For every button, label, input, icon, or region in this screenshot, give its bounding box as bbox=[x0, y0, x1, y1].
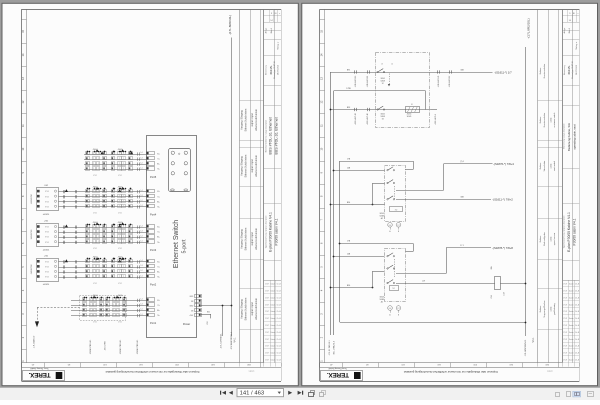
svg-text:36115-: 36115- bbox=[567, 65, 571, 74]
svg-text:17.07: 17.07 bbox=[563, 318, 567, 320]
svg-text:5-2: 5-2 bbox=[140, 270, 142, 272]
svg-text:L19: L19 bbox=[422, 280, 425, 282]
svg-text:4T02: 4T02 bbox=[93, 175, 97, 177]
svg-text:ethernet switch intern: ethernet switch intern bbox=[255, 227, 258, 250]
svg-text:+S11-X4075:9: +S11-X4075:9 bbox=[435, 114, 437, 125]
svg-text:Kabine: Kabine bbox=[540, 116, 542, 123]
svg-text:Port5: Port5 bbox=[150, 175, 157, 179]
svg-text:4T02: 4T02 bbox=[118, 175, 122, 177]
svg-text:8T03: 8T03 bbox=[45, 266, 49, 268]
svg-text:ethernet switch intern: ethernet switch intern bbox=[255, 154, 258, 177]
svg-text:Kabine: Kabine bbox=[540, 305, 542, 312]
svg-text:-W1..178A.74.4: -W1..178A.74.4 bbox=[332, 340, 335, 355]
svg-text:Port3: Port3 bbox=[150, 248, 157, 252]
svg-text:Ch.-B: Ch.-B bbox=[277, 353, 281, 355]
svg-text:178B: 178B bbox=[346, 88, 351, 90]
svg-text:BUS #TOL-10, Ethernet: BUS #TOL-10, Ethernet bbox=[274, 117, 278, 154]
svg-text:8T03: 8T03 bbox=[45, 242, 49, 244]
svg-text:8T03: 8T03 bbox=[45, 206, 49, 208]
svg-text:v: v bbox=[279, 13, 280, 15]
svg-text:+S11-X4075:11: +S11-X4075:11 bbox=[367, 76, 369, 88]
svg-text:Ch.-B: Ch.-B bbox=[575, 304, 579, 306]
svg-text:-A1624: -A1624 bbox=[43, 213, 50, 216]
svg-text:Benennung: Benennung bbox=[564, 65, 566, 75]
svg-text:80+: 80+ bbox=[157, 272, 160, 274]
svg-text:Kabine: Kabine bbox=[540, 162, 542, 169]
svg-text:70-: 70- bbox=[157, 196, 160, 198]
svg-text:80-: 80- bbox=[157, 154, 160, 156]
svg-text:S0345: S0345 bbox=[407, 116, 412, 118]
svg-text:-17L.W6/7B0/14.1: -17L.W6/7B0/14.1 bbox=[525, 339, 527, 357]
svg-text:V4.1: V4.1 bbox=[532, 337, 535, 343]
svg-text:+S11-X4075:19: +S11-X4075:19 bbox=[355, 76, 357, 88]
svg-text:S1: S1 bbox=[411, 104, 413, 106]
svg-text:Ch.-B: Ch.-B bbox=[575, 318, 579, 320]
svg-text:5-2: 5-2 bbox=[140, 235, 142, 237]
svg-text:A2: A2 bbox=[381, 217, 383, 220]
svg-text:5-3: 5-3 bbox=[140, 230, 142, 232]
svg-text:Ch.-B: Ch.-B bbox=[575, 311, 579, 313]
svg-text:-W605: -W605 bbox=[118, 149, 123, 151]
svg-text:Kopieren oder Weitergabe nur m: Kopieren oder Weitergabe nur mit unserer… bbox=[105, 370, 199, 374]
svg-text:80-: 80- bbox=[157, 261, 160, 263]
svg-text:W62: W62 bbox=[207, 321, 209, 324]
svg-text:-R46: -R46 bbox=[491, 295, 493, 299]
svg-text:80+: 80+ bbox=[157, 201, 160, 203]
svg-text:Blatt 5: Blatt 5 bbox=[568, 28, 571, 33]
svg-text:-W605: -W605 bbox=[118, 222, 123, 224]
svg-text:P30/00 cabin V4.1: P30/00 cabin V4.1 bbox=[573, 218, 577, 245]
svg-text:werden: werden bbox=[547, 370, 553, 373]
svg-text:4T02: 4T02 bbox=[93, 283, 97, 285]
svg-text:seat switch: seat switch bbox=[553, 160, 556, 171]
svg-text:Ch.-B: Ch.-B bbox=[277, 332, 281, 334]
svg-text:TEREX.: TEREX. bbox=[28, 371, 50, 378]
svg-text:5-4: 5-4 bbox=[140, 260, 142, 262]
svg-text:5-2: 5-2 bbox=[140, 309, 142, 311]
svg-text:Benennung / page description: Benennung / page description bbox=[563, 123, 566, 148]
svg-text:17.07: 17.07 bbox=[563, 353, 567, 355]
svg-text:4T02: 4T02 bbox=[118, 283, 122, 285]
svg-text:B62: B62 bbox=[207, 312, 210, 314]
svg-text:70+: 70+ bbox=[157, 315, 160, 317]
svg-text:Ch.-B: Ch.-B bbox=[277, 360, 281, 362]
svg-text:-17L.21.7B0/14.1: -17L.21.7B0/14.1 bbox=[329, 339, 331, 355]
svg-text:5-3: 5-3 bbox=[140, 304, 142, 306]
svg-text:Kundenschalter: Kundenschalter bbox=[543, 112, 546, 127]
svg-text:Ch.-B: Ch.-B bbox=[277, 311, 281, 313]
svg-text:Ch.-B: Ch.-B bbox=[277, 284, 281, 286]
svg-text:Sitzschalter: Sitzschalter bbox=[543, 160, 546, 171]
svg-text:Ch.-B: Ch.-B bbox=[575, 291, 579, 293]
svg-text:Ch.-B: Ch.-B bbox=[575, 297, 579, 299]
svg-text:17.07: 17.07 bbox=[265, 353, 269, 355]
svg-text:17.07: 17.07 bbox=[265, 318, 269, 320]
svg-text:5-4: 5-4 bbox=[140, 152, 142, 154]
svg-text:-W604: -W604 bbox=[93, 295, 98, 297]
svg-text:Kundenschalter: Kundenschalter bbox=[543, 63, 546, 78]
svg-text:-W6040/7B0/14.1: -W6040/7B0/14.1 bbox=[90, 340, 92, 355]
svg-text:17.07: 17.07 bbox=[563, 297, 567, 299]
svg-text:Betriebsmittelkennz. / page de: Betriebsmittelkennz. / page description bbox=[264, 120, 267, 152]
svg-text:70-: 70- bbox=[157, 232, 160, 234]
svg-text:17.07: 17.07 bbox=[265, 332, 269, 334]
svg-text:+: + bbox=[185, 153, 186, 155]
svg-text:70-: 70- bbox=[157, 159, 160, 161]
svg-text:-(S1611-*) 7/8+2: -(S1611-*) 7/8+2 bbox=[492, 198, 513, 202]
svg-text:4T02: 4T02 bbox=[93, 213, 97, 215]
svg-text:Ch.-B: Ch.-B bbox=[277, 346, 281, 348]
svg-text:5-2: 5-2 bbox=[140, 200, 142, 202]
svg-text:+S11-X4075:12: +S11-X4075:12 bbox=[449, 76, 451, 88]
svg-text:-17L.W60/7B0/14.4: -17L.W60/7B0/14.4 bbox=[231, 331, 233, 350]
svg-text:70-: 70- bbox=[157, 305, 160, 307]
svg-text:Ch.-B: Ch.-B bbox=[575, 339, 579, 341]
svg-text:S2: S2 bbox=[382, 83, 384, 85]
svg-text:E-plan P30/00 Kabine V4.1: E-plan P30/00 Kabine V4.1 bbox=[567, 212, 571, 252]
svg-text:8T03: 8T03 bbox=[45, 277, 49, 279]
svg-text:Terex Demag GmbH: Terex Demag GmbH bbox=[30, 367, 49, 369]
svg-text:Ch.-B: Ch.-B bbox=[575, 332, 579, 334]
svg-text:Ch.-B: Ch.-B bbox=[575, 325, 579, 327]
svg-text:17.07: 17.07 bbox=[265, 339, 269, 341]
svg-text:Trogzange/Drehen: Trogzange/Drehen bbox=[543, 300, 546, 318]
svg-text:-W604: -W604 bbox=[93, 222, 98, 224]
svg-text:17.07: 17.07 bbox=[265, 291, 269, 293]
svg-text:Ch.-B: Ch.-B bbox=[277, 291, 281, 293]
svg-text:-(17L.8R2/10L): -(17L.8R2/10L) bbox=[527, 18, 531, 38]
svg-text:8T03: 8T03 bbox=[45, 191, 49, 193]
svg-text:5-3: 5-3 bbox=[140, 157, 142, 159]
svg-text:17.07: 17.07 bbox=[563, 304, 567, 306]
svg-text:Bedienung Kabine, Sitz: Bedienung Kabine, Sitz bbox=[567, 122, 571, 151]
svg-text:cabin: cabin bbox=[550, 163, 552, 169]
svg-text:80-: 80- bbox=[157, 191, 160, 193]
svg-text:17.07: 17.07 bbox=[265, 360, 269, 362]
svg-text:17.07: 17.07 bbox=[563, 360, 567, 362]
svg-text:output / input: output / input bbox=[251, 113, 254, 127]
svg-text:output / input: output / input bbox=[251, 159, 254, 173]
svg-text:Anlage: Anlage bbox=[563, 28, 566, 34]
svg-text:70+: 70+ bbox=[157, 206, 160, 208]
svg-text:Blatt 5: Blatt 5 bbox=[270, 28, 273, 33]
svg-text:P30/00 cabin V4.1: P30/00 cabin V4.1 bbox=[274, 218, 278, 245]
svg-text:Ethernet Switch intern: Ethernet Switch intern bbox=[245, 108, 248, 131]
svg-text:5-2: 5-2 bbox=[140, 162, 142, 164]
svg-text:17.07: 17.07 bbox=[563, 332, 567, 334]
svg-text:5-4: 5-4 bbox=[140, 190, 142, 192]
svg-text:Datum/gep 29.07.10: Datum/gep 29.07.10 bbox=[571, 61, 574, 78]
svg-text:Ausgang / Eingang: Ausgang / Eingang bbox=[241, 156, 244, 176]
svg-text:29.07.10/13: 29.07.10/13 bbox=[278, 65, 280, 75]
svg-text:cabin: cabin bbox=[550, 236, 552, 242]
svg-text:17.07: 17.07 bbox=[265, 325, 269, 327]
svg-text:70-: 70- bbox=[157, 266, 160, 268]
svg-text:Port4: Port4 bbox=[150, 213, 157, 217]
svg-text:-W605: -W605 bbox=[118, 257, 123, 259]
svg-text:8T03: 8T03 bbox=[45, 261, 49, 263]
svg-text:80+: 80+ bbox=[157, 164, 160, 166]
svg-text:17.07: 17.07 bbox=[563, 339, 567, 341]
svg-text:5-port: 5-port bbox=[182, 239, 188, 254]
svg-text:80+: 80+ bbox=[157, 310, 160, 312]
svg-text:Ethernet Switch: Ethernet Switch bbox=[173, 220, 180, 268]
svg-text:70+: 70+ bbox=[157, 277, 160, 279]
svg-text:7 Anlag. w: 7 Anlag. w bbox=[277, 41, 280, 50]
svg-text:Kabine: Kabine bbox=[540, 235, 542, 242]
svg-text:Benennung: Benennung bbox=[266, 65, 268, 75]
svg-text:8T03: 8T03 bbox=[45, 227, 49, 229]
svg-text:Typenbezeichnung / project des: Typenbezeichnung / project description bbox=[264, 216, 267, 249]
svg-text:5-1: 5-1 bbox=[140, 205, 142, 207]
svg-text:Typenbezeichnung / project des: Typenbezeichnung / project description bbox=[563, 216, 566, 249]
svg-text:Anlage: Anlage bbox=[265, 28, 268, 34]
svg-text:17.07: 17.07 bbox=[265, 284, 269, 286]
svg-text:(7).1: (7).1 bbox=[460, 161, 464, 163]
svg-text:17.07: 17.07 bbox=[563, 311, 567, 313]
svg-text:-(17L.8R0/10L): -(17L.8R0/10L) bbox=[228, 15, 232, 35]
svg-text:17.1: 17.1 bbox=[460, 245, 464, 247]
svg-text:17.07: 17.07 bbox=[265, 304, 269, 306]
svg-text:speed sensor: speed sensor bbox=[553, 232, 556, 245]
svg-text:output / input: output / input bbox=[251, 232, 254, 246]
svg-text:45055: 45055 bbox=[407, 114, 412, 116]
svg-text:cabin: cabin bbox=[550, 117, 552, 123]
svg-text:B94: B94 bbox=[347, 202, 350, 204]
svg-text:17.07: 17.07 bbox=[563, 325, 567, 327]
svg-text:-W6040/7B0: -W6040/7B0 bbox=[31, 265, 33, 275]
svg-text:Ch.-B: Ch.-B bbox=[575, 346, 579, 348]
svg-text:-X60.1/7B0: -X60.1/7B0 bbox=[105, 341, 107, 350]
svg-text:70+: 70+ bbox=[157, 242, 160, 244]
svg-text:-W604: -W604 bbox=[93, 257, 98, 259]
svg-text:-W6040/7B0: -W6040/7B0 bbox=[31, 194, 33, 204]
svg-text:Port2: Port2 bbox=[150, 283, 157, 287]
svg-text:+S11-X4075:18: +S11-X4075:18 bbox=[355, 113, 357, 125]
svg-text:4T02: 4T02 bbox=[93, 321, 97, 323]
svg-text:Ethernet Switch intern: Ethernet Switch intern bbox=[245, 297, 248, 320]
svg-text:80+: 80+ bbox=[157, 237, 160, 239]
svg-text:Terex Demag GmbH: Terex Demag GmbH bbox=[328, 367, 347, 369]
svg-text:Ausgang / Eingang: Ausgang / Eingang bbox=[241, 299, 244, 319]
svg-text:-(S1611-*) 1/7: -(S1611-*) 1/7 bbox=[494, 70, 512, 74]
svg-text:Ch.-B: Ch.-B bbox=[277, 318, 281, 320]
svg-text:Ausgang / Eingang: Ausgang / Eingang bbox=[241, 229, 244, 249]
svg-text:50348: 50348 bbox=[380, 80, 385, 82]
svg-text:36115-: 36115- bbox=[269, 65, 273, 74]
svg-text:-W6041/7B0/14.1: -W6041/7B0/14.1 bbox=[120, 340, 122, 355]
svg-text:output / input: output / input bbox=[251, 302, 254, 316]
svg-text:v: v bbox=[578, 13, 579, 15]
svg-text:operating cabin, seat: operating cabin, seat bbox=[573, 124, 577, 149]
svg-text:17.07: 17.07 bbox=[563, 346, 567, 348]
svg-text:B93: B93 bbox=[347, 107, 350, 109]
svg-text:A2: A2 bbox=[381, 300, 383, 303]
svg-text:-(S1878-*) 7/8+8: -(S1878-*) 7/8+8 bbox=[492, 246, 513, 250]
svg-text:Datum/gep 29.07.10: Datum/gep 29.07.10 bbox=[273, 61, 276, 78]
svg-text:5-1: 5-1 bbox=[140, 275, 142, 277]
svg-text:Ch.-B: Ch.-B bbox=[277, 304, 281, 306]
svg-text:13: 13 bbox=[381, 64, 383, 66]
svg-text:-W6042/7B0/14.1: -W6042/7B0/14.1 bbox=[137, 340, 139, 355]
svg-text:5-1: 5-1 bbox=[140, 167, 142, 169]
svg-text:8T03: 8T03 bbox=[45, 272, 49, 274]
svg-text:-W604: -W604 bbox=[93, 149, 98, 151]
svg-text:17.07: 17.07 bbox=[265, 311, 269, 313]
svg-text:Kabine: Kabine bbox=[540, 67, 542, 74]
svg-text:Ethernet Switch intern: Ethernet Switch intern bbox=[245, 154, 248, 177]
svg-text:5-4: 5-4 bbox=[140, 225, 142, 227]
svg-text:ethernet switch intern: ethernet switch intern bbox=[255, 108, 258, 131]
svg-text:34505: 34505 bbox=[380, 78, 385, 80]
svg-text:8T03: 8T03 bbox=[45, 196, 49, 198]
svg-text:5-3: 5-3 bbox=[140, 195, 142, 197]
svg-text:Ausgang / Eingang: Ausgang / Eingang bbox=[241, 110, 244, 130]
svg-text:customer switch: customer switch bbox=[553, 112, 556, 128]
svg-text:70+: 70+ bbox=[157, 169, 160, 171]
svg-text:BUS #TOL-10, Ethernet: BUS #TOL-10, Ethernet bbox=[269, 117, 273, 154]
svg-text:-A1624: -A1624 bbox=[43, 283, 50, 286]
svg-text:Port1: Port1 bbox=[150, 321, 157, 325]
svg-text:80-: 80- bbox=[157, 227, 160, 229]
svg-text:4T02: 4T02 bbox=[118, 213, 122, 215]
svg-text:Ch.-B: Ch.-B bbox=[277, 325, 281, 327]
svg-text:5-1: 5-1 bbox=[140, 241, 142, 243]
svg-text:Power: Power bbox=[183, 322, 190, 326]
svg-text:4T02: 4T02 bbox=[93, 248, 97, 250]
svg-text:17.07: 17.07 bbox=[265, 297, 269, 299]
svg-text:14: 14 bbox=[391, 64, 393, 66]
svg-text:29.07.10/13: 29.07.10/13 bbox=[576, 65, 578, 75]
svg-text:50348: 50348 bbox=[380, 116, 385, 118]
svg-text:4T02: 4T02 bbox=[118, 248, 122, 250]
svg-text:E-plan P30/00 Kabine V4.1: E-plan P30/00 Kabine V4.1 bbox=[269, 212, 273, 252]
svg-text:702: 702 bbox=[395, 209, 398, 211]
svg-text:-W605: -W605 bbox=[118, 187, 123, 189]
svg-text:17.07: 17.07 bbox=[563, 284, 567, 286]
svg-text:8T03: 8T03 bbox=[45, 232, 49, 234]
svg-text:17.07: 17.07 bbox=[265, 346, 269, 348]
svg-text:5-1: 5-1 bbox=[140, 314, 142, 316]
svg-text:Ch.-B: Ch.-B bbox=[575, 360, 579, 362]
svg-text:B96: B96 bbox=[347, 285, 350, 287]
svg-text:B91: B91 bbox=[347, 69, 350, 71]
svg-text:+S11-X4075:20: +S11-X4075:20 bbox=[438, 76, 440, 88]
svg-text:1.5W: 1.5W bbox=[504, 292, 506, 296]
svg-text:-W604: -W604 bbox=[93, 187, 98, 189]
svg-text:Ch.-B: Ch.-B bbox=[575, 284, 579, 286]
svg-text:702: 702 bbox=[392, 288, 395, 290]
svg-text:80-: 80- bbox=[157, 300, 160, 302]
svg-text:cabin: cabin bbox=[550, 306, 552, 312]
svg-text:5-4: 5-4 bbox=[140, 299, 142, 301]
svg-text:5-3: 5-3 bbox=[140, 265, 142, 267]
svg-text:Kopieren oder Weitergabe nur m: Kopieren oder Weitergabe nur mit unserer… bbox=[404, 370, 498, 374]
svg-text:werden: werden bbox=[249, 370, 255, 373]
svg-text:Ethernet Switch intern: Ethernet Switch intern bbox=[245, 227, 248, 250]
svg-text:+S11-X4075:10: +S11-X4075:10 bbox=[367, 113, 369, 125]
svg-text:Drehzahlgeber: Drehzahlgeber bbox=[543, 232, 546, 246]
svg-text:V4.1: V4.1 bbox=[234, 337, 237, 343]
svg-text:-A1624: -A1624 bbox=[43, 248, 50, 251]
svg-text:DT: DT bbox=[397, 308, 399, 310]
svg-text:-W6040/7B0: -W6040/7B0 bbox=[31, 230, 33, 240]
svg-text:4T02: 4T02 bbox=[118, 321, 122, 323]
svg-text:Ch.-B: Ch.-B bbox=[575, 353, 579, 355]
svg-text:DT: DT bbox=[397, 225, 399, 227]
svg-text:Ch.-B: Ch.-B bbox=[277, 339, 281, 341]
svg-text:+: + bbox=[185, 163, 186, 165]
svg-text:TEREX.: TEREX. bbox=[327, 371, 349, 378]
svg-text:grab/slewing: grab/slewing bbox=[553, 302, 556, 315]
svg-text:7 Anlag. w: 7 Anlag. w bbox=[575, 41, 578, 50]
svg-text:-W605: -W605 bbox=[118, 295, 123, 297]
svg-text:-17L.X3/7B0/14-: -17L.X3/7B0/14- bbox=[221, 333, 223, 348]
svg-text:141 / 463: 141 / 463 bbox=[240, 390, 265, 396]
svg-text:+: + bbox=[185, 173, 186, 175]
svg-text:S4: S4 bbox=[382, 118, 384, 120]
svg-text:34505: 34505 bbox=[380, 114, 385, 116]
svg-text:-17L.04A/10.0: -17L.04A/10.0 bbox=[32, 335, 35, 348]
svg-text:-(S1876-*) 7/8+4: -(S1876-*) 7/8+4 bbox=[493, 162, 514, 166]
svg-text:Ch.-B: Ch.-B bbox=[277, 297, 281, 299]
svg-text:8T03: 8T03 bbox=[45, 237, 49, 239]
svg-text:17.07: 17.07 bbox=[563, 291, 567, 293]
svg-text:ethernet switch intern: ethernet switch intern bbox=[255, 297, 258, 320]
svg-text:8T03: 8T03 bbox=[45, 201, 49, 203]
